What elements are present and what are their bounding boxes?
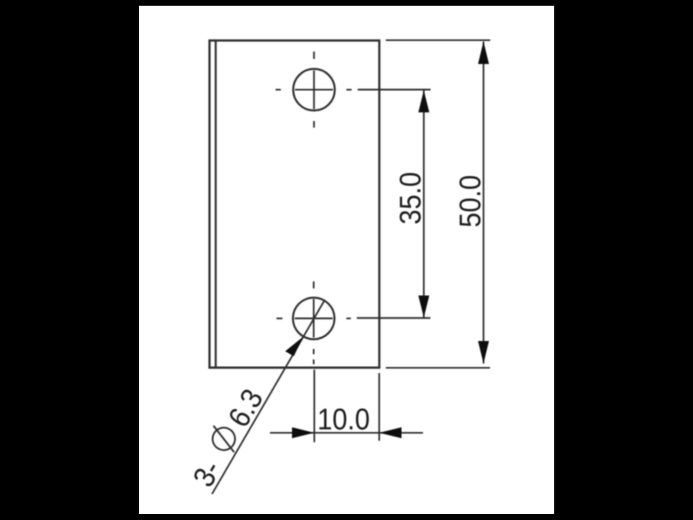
hole H1 centerline horizontal (276, 89, 352, 91)
extension line from hole H2 center down (for 10.0) (313, 370, 315, 443)
hole callout text 6.3 (227, 387, 263, 428)
dimension line 35.0 (423, 90, 425, 317)
extension line from hole H2 center (bottom, for 35.0) (357, 317, 431, 319)
arrowhead 10.0 left (points right) (292, 427, 314, 438)
diameter symbol slash (207, 426, 240, 452)
hole callout text 3- (192, 459, 221, 489)
hole H2 centerline vertical (313, 281, 315, 364)
extension line from hole H1 center (top, for 35.0) (358, 89, 431, 91)
hole H2 (bottom) circle (293, 298, 335, 340)
arrowhead 50.0 bottom (points down) (478, 341, 489, 364)
arrowhead leader (points to hole H2 edge) (285, 337, 303, 357)
extension line from plate right edge down (for 10.0) (378, 373, 380, 441)
hole H1 centerline vertical (313, 52, 315, 128)
dimension text 50.0 (vertical) (459, 176, 480, 226)
hole H2 centerline horizontal (277, 317, 351, 319)
arrowhead 35.0 bottom (points down) (418, 296, 429, 318)
extension line from plate top (for 50.0) (386, 39, 490, 41)
dimension line 50.0 (483, 42, 485, 364)
arrowhead 50.0 top (points up) (478, 42, 489, 65)
arrowhead 10.0 right (points left) (379, 427, 401, 438)
diameter symbol circle (208, 424, 239, 455)
white drawing sheet (139, 6, 554, 514)
dimension line 10.0 (270, 432, 423, 434)
extension line from plate bottom (for 50.0) (386, 367, 490, 369)
arrowhead 35.0 top (points up) (418, 90, 429, 112)
dimension text 10.0 (horizontal) (319, 409, 368, 430)
plate outline (210, 41, 380, 368)
leader line for hole callout (212, 300, 325, 494)
hole callout group (185, 383, 265, 489)
dimension text 35.0 (vertical) (400, 173, 421, 224)
plate inner edge line (left flange) (215, 41, 217, 368)
hole H1 (top) circle (293, 69, 335, 111)
